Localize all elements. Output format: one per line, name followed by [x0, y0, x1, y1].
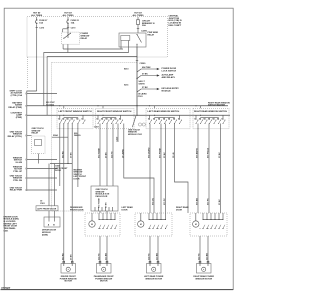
- svg-text:DOOR: DOOR: [55, 170, 62, 172]
- svg-text:LEFT FRONT DOOR: LEFT FRONT DOOR: [37, 209, 57, 211]
- svg-text:972 YE/BK: 972 YE/BK: [99, 197, 101, 208]
- svg-text:694 T/BK: 694 T/BK: [142, 66, 151, 69]
- svg-text:RELAY (PWR): RELAY (PWR): [8, 106, 22, 109]
- svg-text:963 RD: 963 RD: [62, 151, 64, 158]
- svg-text:523 BN: 523 BN: [207, 253, 209, 260]
- svg-text:(CTRL) 15A: (CTRL) 15A: [11, 94, 23, 97]
- svg-text:WINDOW MOTOR: WINDOW MOTOR: [195, 278, 212, 280]
- svg-text:DOOR: DOOR: [122, 210, 129, 212]
- svg-text:57 BK: 57 BK: [219, 152, 221, 158]
- svg-text:RELAY: RELAY: [32, 132, 39, 135]
- svg-text:515 BN: 515 BN: [106, 253, 108, 260]
- svg-text:519 BN: 519 BN: [157, 253, 159, 260]
- svg-text:RELAY PWR: RELAY PWR: [10, 189, 23, 192]
- svg-text:C2280: C2280: [140, 63, 147, 65]
- svg-text:RIGHT REAR WINDOW SWITCH: RIGHT REAR WINDOW SWITCH: [194, 110, 227, 113]
- svg-text:57 BK: 57 BK: [142, 74, 148, 76]
- svg-text:ENG COMPT: ENG COMPT: [169, 25, 182, 27]
- svg-text:977 PK: 977 PK: [208, 198, 210, 205]
- svg-text:RELAY: RELAY: [148, 34, 155, 37]
- svg-text:RELAY (CTRL): RELAY (CTRL): [8, 135, 23, 138]
- svg-text:LEFT FRONT WINDOW SWITCH: LEFT FRONT WINDOW SWITCH: [59, 111, 92, 113]
- svg-text:PASS DOOR: PASS DOOR: [96, 195, 108, 198]
- svg-text:DB/OG: DB/OG: [74, 135, 81, 137]
- svg-text:963 RD: 963 RD: [62, 253, 64, 260]
- svg-text:15A: 15A: [71, 22, 75, 25]
- svg-text:57 BK: 57 BK: [142, 87, 148, 89]
- svg-text:19 LB: 19 LB: [173, 152, 175, 158]
- svg-text:MODULE: MODULE: [162, 91, 172, 93]
- svg-text:57 BK: 57 BK: [164, 152, 166, 158]
- svg-text:DOOR: DOOR: [176, 210, 183, 212]
- svg-text:514 YE: 514 YE: [98, 253, 101, 260]
- svg-text:CTRL UP: CTRL UP: [13, 171, 23, 173]
- svg-text:976 BN: 976 BN: [197, 198, 199, 205]
- svg-text:57 BK: 57 BK: [106, 202, 108, 208]
- svg-text:975 PK/BK: 975 PK/BK: [160, 147, 162, 158]
- svg-text:RELAY: RELAY: [81, 37, 88, 40]
- svg-text:972 YE/BK: 972 YE/BK: [99, 147, 101, 158]
- svg-text:AND RELAYS: AND RELAYS: [162, 76, 176, 79]
- svg-text:MOTOR: MOTOR: [64, 281, 72, 283]
- svg-text:975 PK: 975 PK: [164, 198, 166, 205]
- svg-text:WINDOW MOTOR: WINDOW MOTOR: [145, 278, 162, 280]
- svg-text:CTRL DN: CTRL DN: [13, 180, 23, 182]
- svg-text:974 OG: 974 OG: [152, 198, 155, 205]
- svg-text:ALL TIMES: ALL TIMES: [133, 14, 145, 17]
- svg-text:LOCK SWITCH: LOCK SWITCH: [162, 71, 177, 73]
- svg-text:10A: 10A: [39, 22, 43, 25]
- svg-text:RIGHT FRONT WINDOW SWITCH: RIGHT FRONT WINDOW SWITCH: [97, 111, 132, 113]
- svg-text:ILLUM: ILLUM: [16, 162, 23, 164]
- svg-text:GN/YE: GN/YE: [139, 84, 146, 86]
- svg-text:57 BK: 57 BK: [71, 254, 73, 260]
- svg-text:57 BK: 57 BK: [106, 152, 108, 158]
- svg-text:ALL TIMES: ALL TIMES: [31, 14, 43, 17]
- svg-text:MODULE C501: MODULE C501: [128, 134, 143, 136]
- svg-text:976 BN/YE: 976 BN/YE: [197, 147, 199, 158]
- svg-text:ALL TIMES: ALL TIMES: [63, 14, 75, 17]
- svg-text:57 BK: 57 BK: [219, 199, 221, 205]
- svg-text:MOTOR: MOTOR: [100, 281, 108, 283]
- svg-text:F57027: F57027: [2, 286, 11, 290]
- svg-text:522 YE: 522 YE: [199, 253, 201, 260]
- svg-text:(PWR): (PWR): [16, 117, 23, 119]
- svg-text:57 BK: 57 BK: [71, 152, 73, 158]
- svg-text:19 LB/RD: 19 LB/RD: [122, 149, 124, 158]
- svg-text:518 YE: 518 YE: [149, 253, 151, 260]
- svg-text:SWITCH MASTER: SWITCH MASTER: [208, 104, 225, 107]
- svg-text:974 OG/RD: 974 OG/RD: [148, 147, 151, 158]
- svg-text:DOOR: DOOR: [74, 179, 81, 181]
- svg-text:514 YE: 514 YE: [111, 151, 114, 158]
- svg-text:30A: 30A: [142, 24, 146, 27]
- svg-text:FRONT DOOR: FRONT DOOR: [70, 210, 84, 212]
- svg-text:LEFT REAR WINDOW SWITCH: LEFT REAR WINDOW SWITCH: [148, 110, 180, 113]
- svg-text:(DDM): (DDM): [42, 234, 48, 236]
- svg-text:977 PK/LB: 977 PK/LB: [208, 148, 210, 158]
